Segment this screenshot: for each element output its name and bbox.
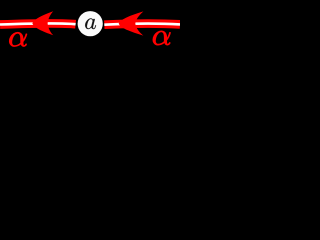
label alpha right (CM alpha outline) [153,31,170,45]
label alpha left (CM alpha outline) [9,32,26,46]
wire left shaft white core [0,23,76,24]
arrowhead right alpha [119,11,144,35]
wire left shaft red [0,23,76,24]
wire right shaft white core [104,24,180,25]
wire right shaft red [104,24,180,25]
arrowhead left alpha [32,11,53,35]
quiver diagram: node a with two alpha arrows [0,0,180,159]
node a label (CM italic a outline) [85,18,96,29]
node a circle [78,11,103,36]
